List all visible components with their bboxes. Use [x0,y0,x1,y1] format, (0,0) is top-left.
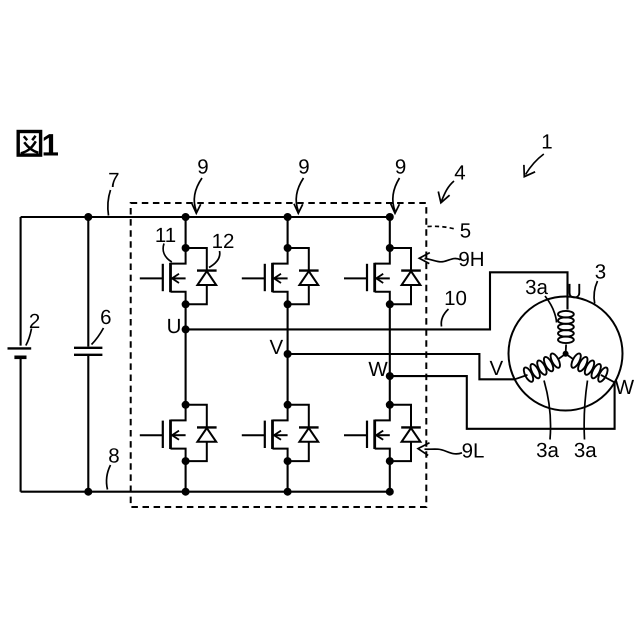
wire leg 3 source to rail [389,461,391,492]
leader 3 [594,281,597,304]
svg-text:U: U [567,280,582,303]
wire V phase to motor [288,354,515,379]
leader 9 leg3 [393,178,400,211]
transistor Q2 MOSFET [140,405,186,461]
node bottom of Q2 [182,457,190,465]
wire capacitor branch [87,217,89,492]
node top of Q5 [386,244,394,252]
svg-text:7: 7 [108,169,119,192]
wire leg 3 drain from rail [389,217,391,248]
node top of Q6 [386,401,394,409]
svg-text:11: 11 [155,224,176,247]
node leg 2 bottom rail [284,488,292,496]
diode D-Q3 antiparallel [288,248,319,304]
leader 6 [92,328,104,345]
node leg 1 top rail [182,213,190,221]
coil 3a W winding [566,352,615,383]
node motor neutral point [563,351,569,357]
leader 10 [441,309,448,327]
wire leg 3 midpoint [389,304,391,405]
node leg 3 bottom rail [386,488,394,496]
svg-text:V: V [489,357,503,380]
bottom rail node capacitor [84,488,92,496]
diode D-Q5 antiparallel [390,248,421,304]
leader 11 [163,244,172,263]
wire battery branch [20,217,22,492]
transistor Q5 MOSFET [344,248,390,304]
dashed box 4 inverter [131,203,427,507]
node leg 3 top rail [386,213,394,221]
wire bottom rail 8 [21,491,390,493]
leader 9 leg1 [194,178,202,211]
svg-text:W: W [368,358,388,381]
node bottom of Q3 [284,300,292,308]
node U phase [182,325,190,333]
svg-text:8: 8 [108,445,119,468]
transistor Q4 MOSFET [242,405,288,461]
wire leg 1 source to rail [185,461,187,492]
svg-text:1: 1 [541,130,552,153]
coil 3a U winding [558,311,574,354]
svg-text:3a: 3a [536,439,559,462]
battery 2 [8,348,32,357]
node bottom of Q6 [386,457,394,465]
wire leg 2 drain from rail [287,217,289,248]
wire leg 1 midpoint [185,304,187,405]
leader 3a top [545,296,557,323]
coil 3a V winding [515,352,566,383]
leader 9 leg2 [296,178,303,211]
svg-text:9: 9 [395,156,406,179]
svg-text:9H: 9H [458,248,484,271]
arrow 9L [425,449,463,454]
diode D-Q1 antiparallel [186,248,217,304]
leader 2 [26,329,32,346]
svg-text:3: 3 [595,260,606,283]
svg-text:W: W [615,376,635,399]
node bottom of Q5 [386,300,394,308]
transistor Q1 MOSFET [140,248,186,304]
arrow 9H [425,259,461,262]
leader 3a bottom left [544,381,551,440]
svg-text:10: 10 [444,287,467,310]
label 図1 figure title [18,132,40,156]
svg-text:4: 4 [454,161,465,184]
svg-text:12: 12 [212,230,235,253]
wire top rail 7 [21,216,390,218]
diode D-Q6 antiparallel [390,405,421,461]
leader 12 [209,251,220,268]
wire leg 2 source to rail [287,461,289,492]
node top of Q4 [284,401,292,409]
node top of Q3 [284,244,292,252]
svg-text:9: 9 [197,156,208,179]
node V phase [284,350,292,358]
svg-text:3a: 3a [574,439,597,462]
svg-text:5: 5 [460,219,471,242]
node leg 2 top rail [284,213,292,221]
node top of Q2 [182,401,190,409]
svg-text:6: 6 [100,306,111,329]
wire leg 1 drain from rail [185,217,187,248]
transistor Q3 MOSFET [242,248,288,304]
node bottom of Q1 [182,300,190,308]
leader 3a bottom right [584,381,587,440]
wire leg 2 midpoint [287,304,289,405]
node top of Q1 [182,244,190,252]
node bottom of Q4 [284,457,292,465]
svg-text:V: V [270,336,284,359]
node W phase [386,372,394,380]
wire U phase to motor [186,272,568,329]
motor 3 circle [509,297,623,411]
node leg 1 bottom rail [182,488,190,496]
transistor Q6 MOSFET [344,405,390,461]
svg-text:U: U [167,315,182,338]
top rail node capacitor [84,213,92,221]
leader 5 dashed [428,226,457,229]
svg-text:9L: 9L [462,439,485,462]
leader 7 [108,190,111,216]
svg-text:1: 1 [42,128,59,163]
arrow 4 [442,181,455,201]
svg-text:9: 9 [298,156,309,179]
arrow 1 [526,154,544,175]
capacitor 6 [74,348,102,355]
diode D-Q4 antiparallel [288,405,319,461]
svg-text:3a: 3a [525,276,548,299]
diode D-Q2 antiparallel [186,405,217,461]
wire W phase to motor [390,376,615,429]
leader 8 [107,465,111,490]
